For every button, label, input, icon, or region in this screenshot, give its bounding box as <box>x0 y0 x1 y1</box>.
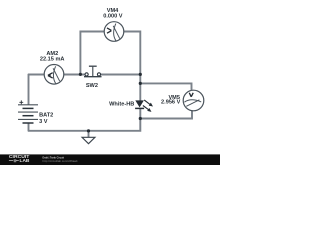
wire AM2 to SW2 <box>64 74 85 76</box>
LED White-HB <box>135 100 152 111</box>
ground <box>82 137 95 143</box>
junction LED cathode/VM5 bottom node <box>139 117 142 120</box>
junction ground node <box>87 129 90 132</box>
wire VM5 bottom to rail <box>140 111 192 119</box>
voltmeter VM4 <box>104 22 124 42</box>
switch SW2 <box>84 66 102 77</box>
svg-text:2.956 V: 2.956 V <box>161 100 181 106</box>
svg-text:SW2: SW2 <box>86 83 98 89</box>
footer bar <box>0 154 220 165</box>
svg-text:3 V: 3 V <box>39 119 48 125</box>
LED light arrows <box>144 100 150 104</box>
voltmeter VM5 <box>183 90 204 111</box>
plus sign <box>19 100 23 104</box>
svg-text:BAT2: BAT2 <box>39 112 53 118</box>
svg-text:LAB: LAB <box>20 158 30 163</box>
wire VM4 right to right rail <box>124 32 141 101</box>
svg-text:White-HB: White-HB <box>109 102 134 108</box>
wire LED cathode down and bottom run <box>28 108 140 131</box>
battery BAT2 <box>18 100 38 123</box>
wire ground stub <box>88 131 90 138</box>
wire battery bottom lead <box>28 123 30 131</box>
wire rail to VM5 top <box>140 83 191 90</box>
wire SW2 right to rail <box>101 74 141 76</box>
svg-text:0.000 V: 0.000 V <box>103 13 123 19</box>
svg-text:http://circuitlab.com/c66aa4: http://circuitlab.com/c66aa4 <box>43 159 78 163</box>
footer logo CIRCUIT LAB <box>9 154 30 163</box>
junction AM2/SW2/VM4 node <box>79 73 82 76</box>
junction SW2/LED anode node <box>139 73 142 76</box>
ammeter AM2 <box>44 65 64 85</box>
wire top left to AM2 <box>28 74 44 76</box>
wire riser to VM4 left <box>80 32 104 75</box>
junction VM5 top tap <box>139 82 142 85</box>
wire battery top lead up left rail <box>28 74 30 105</box>
svg-text:22.15 mA: 22.15 mA <box>40 56 65 62</box>
